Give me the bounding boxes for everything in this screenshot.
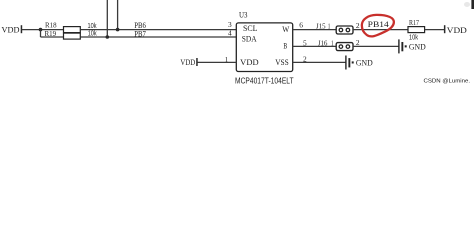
- power port VDD (top-left): [2, 25, 23, 34]
- svg-text:MCP4017T-104ELT: MCP4017T-104ELT: [235, 76, 294, 85]
- node junction at VDD split: [39, 28, 43, 32]
- wire R18 row to IC SCL: [80, 29, 236, 31]
- wire VSS pin to GND: [293, 61, 346, 63]
- svg-text:VDD: VDD: [2, 26, 20, 35]
- wire R19 left lead: [41, 36, 64, 38]
- svg-text:GND: GND: [356, 59, 373, 68]
- svg-text:GND: GND: [409, 42, 426, 51]
- wire J15 to R17: [353, 29, 408, 31]
- wire J16 to GND: [353, 45, 399, 47]
- svg-text:PB14: PB14: [368, 19, 390, 29]
- resistor R19 body: [64, 33, 81, 39]
- power port VDD (right): [444, 25, 467, 35]
- ground GND (VSS): [345, 56, 372, 70]
- svg-text:U3: U3: [239, 11, 248, 20]
- resistor R18 body: [64, 27, 81, 33]
- node junction PB7: [106, 35, 110, 39]
- power port VDD (bottom): [180, 58, 197, 67]
- svg-text:SDA: SDA: [242, 34, 257, 43]
- svg-text:R18: R18: [45, 20, 57, 29]
- svg-text:VDD: VDD: [447, 26, 467, 35]
- wire VDD to junction and R18 lead: [22, 29, 64, 31]
- wire vertical net PB7 from top: [106, 0, 108, 37]
- svg-text:6: 6: [299, 21, 303, 30]
- decorative faint smudge: [464, 2, 470, 7]
- wire junction down to R19 row: [40, 30, 42, 37]
- svg-text:W: W: [282, 25, 289, 34]
- IC U3 body MCP4017: [236, 23, 292, 72]
- svg-text:2: 2: [356, 21, 360, 30]
- svg-text:1: 1: [328, 22, 331, 31]
- wire R17 to VDD port: [425, 29, 445, 31]
- svg-text:4: 4: [228, 29, 232, 38]
- svg-text:R17: R17: [409, 18, 419, 27]
- svg-text:10k: 10k: [88, 23, 97, 30]
- wire B pin to J16: [293, 45, 337, 47]
- wire W pin to J15: [293, 29, 337, 31]
- connector J15 body (2-pin jumper): [336, 26, 353, 34]
- wire R19 row to IC SDA: [80, 36, 236, 38]
- svg-text:VDD: VDD: [240, 58, 258, 67]
- svg-text:B: B: [283, 41, 287, 50]
- node junction PB6: [116, 28, 120, 32]
- ground GND (J16): [398, 39, 425, 53]
- wire vertical net PB6 from top: [117, 0, 119, 30]
- svg-text:10k: 10k: [88, 31, 97, 38]
- svg-text:R19: R19: [45, 29, 57, 38]
- wire VDD port to IC pin 1: [197, 61, 236, 63]
- svg-text:VDD: VDD: [180, 58, 195, 67]
- svg-text:SCL: SCL: [243, 24, 258, 33]
- connector J16 body (2-pin jumper): [336, 43, 353, 51]
- svg-text:1: 1: [331, 38, 334, 47]
- cropped mark top-right corner: [471, 0, 474, 9]
- svg-text:10k: 10k: [409, 34, 418, 41]
- svg-text:VSS: VSS: [275, 58, 289, 67]
- svg-text:PB7: PB7: [134, 28, 146, 38]
- svg-text:2: 2: [356, 38, 360, 47]
- svg-text:CSDN @Lumine.: CSDN @Lumine.: [424, 78, 471, 84]
- resistor R17 body: [408, 27, 425, 33]
- annotation red ellipse around PB14: [362, 15, 394, 37]
- svg-text:J15: J15: [316, 22, 326, 31]
- svg-text:3: 3: [228, 20, 232, 29]
- svg-text:J16: J16: [318, 38, 328, 47]
